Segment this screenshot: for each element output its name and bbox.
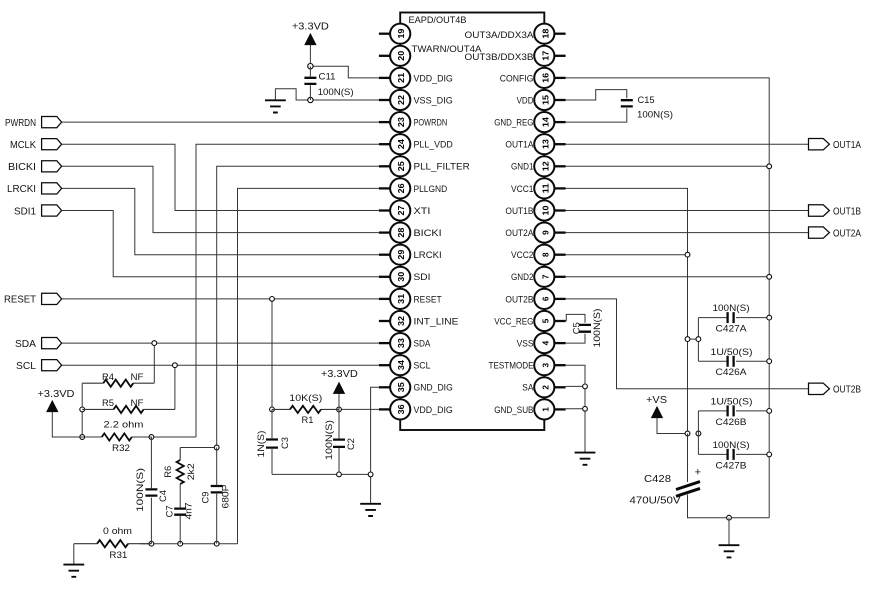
port OUT1A [809, 139, 862, 152]
wire C428 bottom to rail [688, 495, 770, 518]
wire pin 3 TESTMODE to ground [566, 365, 585, 452]
svg-text:28: 28 [397, 227, 406, 237]
svg-text:OUT1B: OUT1B [833, 205, 861, 217]
wire gnd stem bottom-right [728, 518, 730, 546]
wire C5 bottom to pin 4 VSS [566, 334, 585, 343]
svg-text:PWRDN: PWRDN [5, 117, 36, 129]
wire pin 11 VCC1 supply rail [566, 188, 688, 481]
capacitor C9 680P [201, 448, 232, 544]
svg-text:SDA: SDA [414, 339, 431, 350]
junction C427A gnd [767, 315, 772, 320]
svg-text:R5: R5 [102, 398, 114, 409]
svg-text:POWRDN: POWRDN [414, 118, 448, 129]
svg-text:NF: NF [131, 372, 144, 383]
svg-text:OUT2A: OUT2A [505, 228, 534, 239]
pin 10 OUT1B [505, 200, 565, 220]
svg-text:+3.3VD: +3.3VD [321, 368, 358, 380]
pin 19 EAPD/OUT4B [379, 24, 410, 44]
junction GND1 rail [767, 164, 772, 169]
wire pin 1 GND_SUB to ground line [566, 408, 585, 410]
svg-text:TESTMODE: TESTMODE [489, 361, 534, 372]
junction R32/C4 [149, 435, 154, 440]
wire C3 top [271, 409, 273, 438]
svg-text:6: 6 [541, 296, 550, 301]
svg-text:13: 13 [541, 139, 550, 149]
svg-text:VSS: VSS [517, 339, 534, 350]
capacitor C426A 1U/50(S) [698, 347, 752, 378]
pin 16 CONFIG [500, 68, 566, 88]
wire C427A right lead [736, 317, 769, 319]
svg-text:680P: 680P [221, 485, 232, 509]
port SCL [16, 360, 62, 372]
pin 33 SDA [379, 333, 431, 353]
svg-text:C15: C15 [638, 95, 655, 106]
pin 3 TESTMODE [489, 355, 566, 375]
wire C11 plate stems [309, 66, 311, 100]
svg-text:XTI: XTI [414, 206, 431, 217]
ground bottom-left [63, 565, 84, 577]
svg-text:470U/50V: 470U/50V [630, 495, 681, 507]
svg-text:SDI1: SDI1 [14, 205, 36, 217]
resistor R5 NF [82, 398, 175, 413]
resistor R1 10K(S) [272, 393, 339, 426]
svg-text:100N(S): 100N(S) [135, 468, 146, 512]
junction GND_SUB [583, 406, 588, 411]
svg-text:100N(S): 100N(S) [713, 440, 750, 451]
svg-text:18: 18 [541, 28, 550, 38]
wire pin 12 GND1 to rail [566, 165, 770, 167]
junction gnd-dig rail [368, 472, 373, 477]
svg-text:VSS_DIG: VSS_DIG [414, 95, 453, 106]
pin 22 VSS_DIG [379, 90, 453, 110]
capacitor C11 100N(S) [304, 72, 353, 99]
junction C426B gnd [767, 409, 772, 414]
svg-text:INT_LINE: INT_LINE [414, 316, 459, 327]
svg-text:R1: R1 [302, 415, 314, 426]
wire pin 9 to OUT2A port [566, 232, 809, 234]
svg-text:SA: SA [522, 383, 534, 394]
pin 21 VDD_DIG [379, 68, 453, 88]
port OUT2A [809, 227, 862, 240]
svg-text:+3.3VD: +3.3VD [292, 20, 329, 32]
svg-text:20: 20 [397, 50, 406, 60]
wire C11 bottom to ground [275, 89, 310, 101]
wire PLL filter node to R6 [180, 447, 217, 449]
svg-text:GND_DIG: GND_DIG [414, 383, 453, 394]
svg-text:OUT3A/DDX3A: OUT3A/DDX3A [465, 30, 535, 41]
resistor R31 0 ohm [74, 526, 152, 561]
pin 24 PLL_VDD [379, 134, 453, 154]
wire pin 25 PLL_FILTER down [217, 166, 379, 447]
svg-text:32: 32 [397, 316, 406, 326]
wire C15 bottom to pin 14 GND_REG [566, 108, 627, 122]
svg-text:100N(S): 100N(S) [637, 110, 673, 121]
wire decoupling A left vertical [688, 318, 699, 362]
svg-text:100N(S): 100N(S) [318, 87, 354, 98]
pin 11 VCC1 [511, 178, 566, 198]
resistor R32 2.2 ohm [82, 419, 151, 454]
wire C11 bottom to pin 22 [310, 99, 379, 101]
pin 32 INT_LINE [379, 311, 459, 331]
wire C2 top [338, 409, 340, 438]
port RESET [4, 293, 62, 305]
pin 27 XTI [379, 200, 431, 220]
port BICKI [8, 161, 62, 173]
svg-text:C428: C428 [644, 473, 671, 485]
pin 13 OUT1A [505, 134, 565, 154]
svg-text:15: 15 [541, 95, 550, 105]
wire C428 top [687, 434, 689, 483]
svg-text:R31: R31 [109, 550, 127, 561]
svg-text:BICKI: BICKI [8, 161, 36, 173]
svg-text:1U/50(S): 1U/50(S) [711, 347, 753, 358]
junction R1 left node [270, 407, 275, 412]
pin 34 SCL [379, 355, 431, 375]
svg-text:C426A: C426A [716, 367, 748, 378]
power +3.3VD center [321, 368, 358, 394]
svg-text:35: 35 [397, 382, 406, 392]
svg-text:1: 1 [541, 407, 550, 412]
svg-text:NF: NF [131, 398, 144, 409]
svg-text:+VS: +VS [646, 394, 667, 406]
svg-text:2k2: 2k2 [186, 463, 197, 480]
port LRCKI [7, 183, 62, 195]
svg-text:29: 29 [397, 249, 406, 259]
pin 25 PLL_FILTER [379, 156, 470, 176]
junction A caps mid rail [685, 337, 690, 342]
junction C9 gnd [214, 541, 219, 546]
svg-text:VDD_DIG: VDD_DIG [414, 405, 453, 416]
port SDA [15, 338, 62, 350]
pin 20 TWARN/OUT4A [379, 46, 410, 66]
svg-text:C2: C2 [346, 438, 357, 450]
port MCLK [10, 139, 62, 151]
svg-text:VCC_REG: VCC_REG [494, 316, 533, 327]
svg-text:25: 25 [397, 161, 406, 171]
svg-text:1N(S): 1N(S) [256, 431, 267, 458]
svg-text:OUT2B: OUT2B [833, 384, 861, 396]
svg-text:26: 26 [397, 183, 406, 193]
svg-text:GND_SUB: GND_SUB [494, 405, 533, 416]
capacitor C427B 100N(S) [698, 440, 749, 471]
svg-text:C3: C3 [280, 437, 291, 449]
junction R1 right node [337, 407, 342, 412]
pin 17 OUT3B/DDX3B [534, 46, 565, 66]
junction C4 gnd [149, 541, 154, 546]
svg-text:C7: C7 [165, 505, 176, 517]
svg-text:10: 10 [541, 205, 550, 215]
svg-text:2: 2 [541, 385, 550, 390]
junction R5 left [80, 407, 85, 412]
svg-text:5: 5 [541, 318, 550, 323]
wire SDA branch to R4 [153, 343, 155, 383]
junction +VS caps [696, 431, 701, 436]
junction GND2 rail [767, 274, 772, 279]
wire +3.3VD stem at R1 [338, 394, 340, 410]
pin 15 VDD [517, 90, 566, 110]
junction C2 gnd [337, 472, 342, 477]
svg-text:PLL_FILTER: PLL_FILTER [414, 162, 470, 173]
capacitor C15 100N(S) [621, 95, 673, 121]
pin 36 VDD_DIG [379, 399, 453, 419]
pin 1 GND_SUB [494, 399, 565, 419]
pin 26 PLLGND [379, 178, 447, 198]
junction SCL/R5 [173, 363, 178, 368]
pin 4 VSS [517, 333, 566, 353]
wire C11 +3.3VD stem [309, 45, 311, 66]
svg-text:3: 3 [541, 362, 550, 367]
wire C11 top to pin 21 [310, 66, 379, 78]
wire pin 5 VCC_REG to C5 [566, 314, 585, 322]
wire RESET to pin 31 [62, 298, 379, 300]
svg-text:CONFIG: CONFIG [500, 73, 534, 84]
svg-text:VCC1: VCC1 [511, 184, 534, 195]
junction RESET/R1 branch [270, 297, 275, 302]
pin 23 POWRDN [379, 112, 447, 132]
capacitor C428 470U/50V electrolytic [630, 467, 702, 507]
svg-text:OUT1A: OUT1A [833, 139, 861, 151]
pin 7 GND2 [511, 267, 566, 287]
svg-text:34: 34 [397, 360, 406, 370]
svg-text:PLL_VDD: PLL_VDD [414, 140, 453, 151]
capacitor C7 4n7 [165, 484, 195, 544]
pin 9 OUT2A [505, 223, 565, 243]
svg-text:36: 36 [397, 404, 406, 414]
port OUT1B [809, 205, 862, 218]
wire pin 10 to OUT1B port [566, 210, 809, 212]
ground near C11 [265, 100, 286, 112]
svg-text:27: 27 [397, 205, 406, 215]
ground center (digital) [360, 504, 381, 516]
resistor R4 NF [82, 372, 154, 387]
junction C11 bottom [308, 97, 313, 102]
svg-text:C11: C11 [319, 72, 336, 83]
svg-text:VDD_DIG: VDD_DIG [414, 73, 453, 84]
wire digital ground rail [272, 473, 371, 475]
svg-text:17: 17 [541, 50, 550, 60]
pin 18 OUT3A/DDX3A [534, 24, 565, 44]
wire SDI1 to pin 30 [62, 211, 379, 277]
wire R31 to ground [73, 544, 75, 565]
pin 35 GND_DIG [379, 377, 453, 397]
svg-text:R32: R32 [112, 443, 130, 454]
svg-text:C426B: C426B [716, 417, 747, 428]
capacitor C3 1N(S) [256, 431, 291, 458]
wire LRCKI to pin 29 [62, 188, 379, 254]
pin 2 SA [522, 377, 565, 397]
junction SA [583, 384, 588, 389]
resistor R6 2k2 [163, 448, 197, 485]
svg-text:100N(S): 100N(S) [592, 309, 603, 348]
svg-text:OUT3B/DDX3B: OUT3B/DDX3B [465, 52, 534, 63]
svg-text:SCL: SCL [16, 360, 36, 372]
svg-text:33: 33 [397, 338, 406, 348]
wire pin 8 VCC2 to rail [566, 254, 688, 256]
svg-text:C5: C5 [572, 322, 583, 334]
port SDI1 [14, 205, 62, 217]
svg-text:2.2 ohm: 2.2 ohm [104, 419, 144, 430]
junction SDA/R4 [152, 341, 157, 346]
junction C426A gnd [767, 359, 772, 364]
wire C426A right lead [736, 360, 769, 362]
svg-text:9: 9 [541, 230, 550, 235]
capacitor C427A 100N(S) [698, 303, 749, 334]
port OUT2B [809, 383, 862, 396]
svg-text:7: 7 [541, 274, 550, 279]
wire pin 36 to R1 node [339, 408, 379, 410]
svg-text:11: 11 [541, 183, 550, 194]
power +VS [646, 394, 667, 418]
svg-text:OUT1A: OUT1A [505, 140, 534, 151]
wire pin 2 SA to ground line [566, 385, 585, 387]
ground bottom-right [719, 545, 740, 557]
wire +VS stem [657, 418, 688, 434]
junction C7 gnd [178, 541, 183, 546]
svg-text:OUT2A: OUT2A [833, 227, 861, 239]
junction C427B gnd [767, 452, 772, 457]
junction VCC2 rail [685, 252, 690, 257]
wire pin 6 OUT2B to port [566, 299, 809, 389]
wire decoupling B left vertical [697, 411, 699, 455]
pin 29 LRCKI [379, 245, 442, 265]
pin 12 GND1 [511, 156, 566, 176]
capacitor C5 100N(S) [572, 309, 603, 348]
svg-text:SCL: SCL [414, 361, 431, 372]
IC U1 body [400, 13, 544, 431]
svg-text:LRCKI: LRCKI [414, 250, 442, 261]
wire pin 35 GND_DIG to ground [371, 387, 379, 504]
svg-text:BICKI: BICKI [414, 228, 442, 239]
svg-text:R4: R4 [102, 372, 114, 383]
wire C426B right lead [736, 410, 769, 412]
wire BICKI to pin 28 [62, 166, 379, 232]
pin 31 RESET [379, 289, 442, 309]
pin 6 OUT2B [505, 289, 565, 309]
svg-text:4: 4 [541, 340, 550, 345]
pin 14 GND_REG [494, 112, 565, 132]
svg-text:VCC2: VCC2 [511, 250, 534, 261]
pin 5 VCC_REG [494, 311, 565, 331]
wire pin 15 VDD to C15 [566, 90, 627, 100]
wire +3.3VD to R32 [52, 412, 82, 437]
svg-text:22: 22 [397, 95, 406, 105]
svg-text:14: 14 [541, 117, 550, 127]
junction R32 left [80, 435, 85, 440]
ground below IC [575, 453, 596, 465]
wire pullup bus left vertical [81, 383, 83, 437]
wire pin 26 PLLGND down [238, 188, 379, 543]
svg-text:VDD: VDD [517, 95, 534, 106]
svg-text:100N(S): 100N(S) [713, 303, 750, 314]
wire pin 13 to OUT1A port [566, 143, 809, 145]
wire SCL branch to R5 [174, 365, 176, 409]
svg-text:SDA: SDA [15, 338, 36, 350]
wire MCLK to pin 27 XTI [62, 144, 379, 210]
junction C11 top [308, 63, 313, 68]
junction A caps mid [696, 337, 701, 342]
svg-text:C4: C4 [158, 490, 169, 502]
svg-text:EAPD/OUT4B: EAPD/OUT4B [409, 15, 467, 26]
junction bottom-right gnd [727, 515, 732, 520]
svg-text:RESET: RESET [414, 294, 442, 305]
svg-text:4n7: 4n7 [184, 503, 195, 520]
svg-text:12: 12 [541, 161, 550, 171]
svg-text:C427B: C427B [716, 460, 747, 471]
svg-text:GND2: GND2 [511, 272, 534, 283]
svg-text:30: 30 [397, 271, 406, 281]
wire C2 bottom [338, 448, 340, 474]
wire C3 bottom [271, 449, 273, 475]
svg-text:31: 31 [397, 293, 406, 303]
junction PLL filter node [214, 445, 219, 450]
svg-text:0 ohm: 0 ohm [103, 526, 132, 537]
wire PWRDN to pin 23 [62, 121, 379, 123]
svg-text:C427A: C427A [716, 324, 748, 335]
port PWRDN [5, 117, 62, 129]
pin 8 VCC2 [511, 245, 566, 265]
svg-text:GND_REG: GND_REG [494, 118, 533, 129]
svg-text:100N(S): 100N(S) [324, 420, 335, 460]
junction +VS rail [685, 431, 690, 436]
pin 30 SDI [379, 267, 431, 287]
svg-text:RESET: RESET [4, 294, 37, 306]
svg-text:21: 21 [397, 72, 406, 82]
wire pin 7 GND2 to rail [566, 276, 770, 278]
svg-text:GND1: GND1 [511, 162, 534, 173]
svg-text:10K(S): 10K(S) [289, 393, 322, 404]
svg-text:C9: C9 [201, 492, 212, 504]
svg-text:R6: R6 [163, 466, 174, 478]
svg-text:+: + [695, 467, 701, 479]
svg-text:PLLGND: PLLGND [414, 184, 448, 195]
wire pin 16 CONFIG to ground rail [566, 78, 770, 518]
svg-text:8: 8 [541, 252, 550, 257]
svg-text:LRCKI: LRCKI [7, 183, 36, 195]
pin 28 BICKI [379, 223, 442, 243]
wire SDA to pin 33 [62, 342, 379, 344]
wire analog ground rail [140, 543, 238, 545]
wire R32 out to pin 24 PLL_VDD [151, 144, 379, 437]
svg-text:MCLK: MCLK [10, 139, 36, 151]
svg-text:SDI: SDI [414, 272, 431, 283]
wire RESET branch down to R1 [271, 299, 273, 410]
svg-text:16: 16 [541, 72, 550, 82]
power +3.3VD left [38, 388, 75, 412]
wire C427B right lead [736, 453, 769, 455]
svg-text:1U/50(S): 1U/50(S) [711, 397, 753, 408]
capacitor C4 100N(S) [135, 437, 169, 544]
svg-text:OUT1B: OUT1B [505, 206, 533, 217]
svg-text:+3.3VD: +3.3VD [38, 388, 75, 400]
wire SCL to pin 34 [62, 364, 379, 366]
svg-text:24: 24 [397, 139, 406, 149]
capacitor C2 100N(S) [324, 420, 357, 460]
svg-text:OUT2B: OUT2B [505, 294, 533, 305]
svg-text:23: 23 [397, 117, 406, 127]
svg-text:19: 19 [397, 28, 406, 38]
power +3.3VD top [292, 20, 329, 45]
capacitor C426B 1U/50(S) [698, 397, 752, 428]
